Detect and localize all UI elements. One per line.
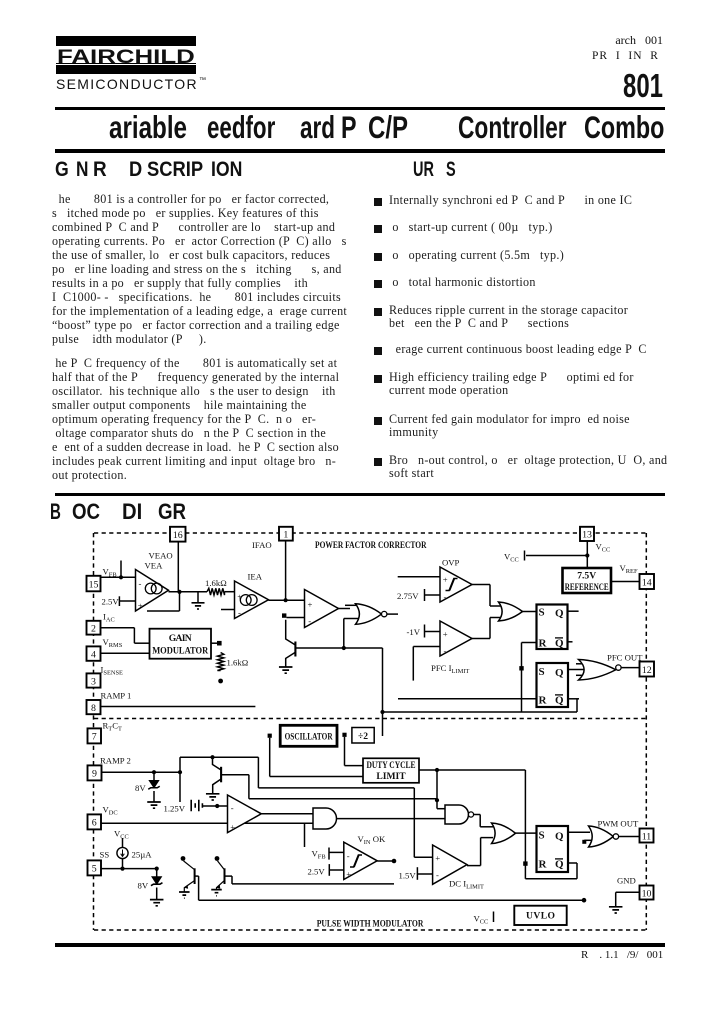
transistor Q2 (RAMP2 discharge) [213,757,221,770]
svg-text:R: R [539,638,548,650]
svg-text:16: 16 [173,530,183,541]
junction VEA output [177,590,181,594]
ground below Q1 [279,667,293,673]
svg-text:13: 13 [582,530,592,541]
wire VIN OK output [377,860,392,862]
junction VFB [119,575,123,579]
wire -1V to ILIMIT + input [425,631,441,633]
wire clock feedback line [383,711,578,713]
Fairchild logo lower bar [56,65,196,74]
wire latch1 Q out [568,610,579,612]
block DUTY CYCLE LIMIT [363,758,419,783]
wire VCC rail to ref [526,555,587,557]
wire VCC tick at UVLO [493,912,495,923]
svg-text:3: 3 [91,676,96,687]
gate NOR2 (PWM OUT driver) [589,826,614,847]
op-amp VEA (gm amplifier) [136,570,169,612]
junction battery wire [215,804,219,808]
svg-text:RAMP 2: RAMP 2 [100,756,131,766]
svg-text:POWER FACTOR CORRECTOR: POWER FACTOR CORRECTOR [315,540,427,551]
zener 8V on SS [156,869,158,877]
wire PFC comparator inverting input [287,617,305,619]
svg-text:VDC: VDC [103,805,118,817]
wire VFB to VIN OK [329,851,344,853]
wire SS from pin5 [102,868,157,870]
svg-text:7.5V: 7.5V [577,571,596,582]
pin 10 [640,886,654,900]
heading GENERAL DESCRIPTION (degraded) [55,159,69,180]
junction Q2 collector [210,755,214,759]
wire DC ILIMIT output [467,865,481,867]
wire Qbar down [576,863,578,879]
wire 2.5V to VEA + input [119,600,135,602]
comparator PWM [228,795,262,833]
svg-text:Q: Q [555,695,564,707]
terminal dot T2 collector [215,856,220,861]
revision line REV 1.1 3/9/2001 degraded [581,949,663,961]
wire 2.75V tick [424,589,426,601]
svg-text:÷2: ÷2 [358,731,368,742]
svg-text:S: S [539,666,545,678]
wire 2.5V tick VIN OK [328,864,330,876]
pin 16 [170,527,186,542]
svg-text:8V: 8V [138,881,149,891]
flip-flop latch2 (PFC output) [537,663,569,707]
svg-text:OVP: OVP [442,558,460,568]
wire VFB stub [120,561,122,578]
ground at VEA output stage [197,592,199,603]
pin 3 [87,673,101,687]
ground below T1 [179,892,190,898]
svg-text:VCC: VCC [474,914,489,926]
svg-text:15: 15 [89,579,99,590]
svg-text:GND: GND [617,876,636,886]
wire OVP + input [398,576,440,578]
svg-text:+: + [435,853,440,863]
wire latch1 R down [521,643,523,713]
wire RAMP2 vertical [179,757,181,802]
ground below T2 [211,890,222,896]
wire RAMP2 from pin9 [102,771,181,773]
svg-text:Q: Q [555,638,564,650]
wire VCC to current source [122,838,124,848]
Fairchild logo top bar [56,36,196,46]
wire PWM latch Q out [568,831,590,833]
wire IEA output to PFC comparator [269,599,305,601]
pin 14 [640,574,655,589]
wire NAND out down [479,815,481,827]
gate OR1 (PFC latch set) [499,602,523,621]
junction NAND top input [435,798,439,802]
wire latch1 R input [522,642,537,644]
wire NOR1 top input stub [345,604,358,606]
wire IAC from pin2 [101,627,135,629]
wire feedback bottom [525,878,577,880]
wire NOR2 out to pin11 [619,836,640,838]
svg-text:+: + [230,822,235,832]
pin 12 [640,662,655,677]
terminal square oscillator input [268,734,272,738]
pin 5 [88,860,102,875]
comparator PFC duty [305,590,339,628]
wire resistor to IEA [225,591,235,593]
part number 801 [623,69,663,102]
wire bus line 2 down right [413,788,415,857]
resistor 1.6k at gain modulator output [217,653,223,671]
svg-text:2: 2 [91,624,96,635]
junction IEA output [284,598,288,602]
wire OVP output down [489,585,491,607]
svg-text:8: 8 [91,703,96,714]
SVG-START [0,520,720,945]
terminal square gain modulator output [217,641,222,646]
wire NOR3 top stub [576,663,590,665]
wire OR2 top stub [480,826,493,828]
terminal square on clock feed [519,666,523,670]
wire VDC stub down [304,823,306,847]
terminal dot UVLO line [582,898,587,903]
wire into duty cycle limit upper-left [270,776,363,778]
svg-text:5: 5 [92,864,97,875]
wire VEA output wrap left [147,610,180,612]
comparator PFC ILIMIT [440,621,472,656]
PRELIMINARY with missing glyphs [592,50,659,62]
transistor Q1 (PFC ramp discharge) [286,620,295,645]
wire oscillator terminal down [269,738,271,777]
svg-text:1.25V: 1.25V [164,804,186,814]
block divide-by-2 [352,728,374,744]
svg-text:IAC: IAC [103,612,115,624]
svg-text:PWM OUT: PWM OUT [598,819,639,829]
bottom thick rule [55,943,665,947]
wire OR2 bottom stub [481,837,493,839]
wire Q2 collector line [180,756,258,758]
wire T1 base down [198,876,200,900]
wire VFB tick [328,848,330,860]
dashed border right [645,533,647,930]
wire NAND top feed line [249,798,437,800]
svg-text:-: - [444,592,447,602]
title: Variable Feedforward PFC/PWM Controller Combo (degraded) [109,112,187,144]
svg-text:OSCILLATOR: OSCILLATOR [285,732,334,743]
terminal dot T1 collector [181,856,186,861]
wire T1 base [195,875,199,877]
svg-text:VCC: VCC [504,552,519,564]
pin 9 [88,765,102,780]
svg-text:1.6kΩ: 1.6kΩ [205,578,227,588]
svg-text:DC ILIMIT: DC ILIMIT [449,879,484,891]
left column paragraph 2 [52,356,339,482]
wire OR1 bottom stub [490,617,501,619]
wire NOR3 out to pin12 [621,667,639,669]
wire IEA inverting input stub [221,609,235,611]
svg-text:-: - [238,608,241,618]
left column paragraph 1 [52,192,347,346]
comparator DC ILIMIT [433,845,467,884]
svg-text:VCC: VCC [114,829,129,841]
svg-text:IFAO: IFAO [252,540,272,550]
svg-text:7: 7 [92,732,97,743]
wire ILIMIT - input [413,646,440,648]
wire comparator out to NOR1 [339,608,351,610]
svg-text:2.5V: 2.5V [308,867,326,877]
wire into duty cycle limit [345,765,364,767]
svg-text:9: 9 [92,769,97,780]
svg-text:UVLO: UVLO [526,911,555,922]
thin rule under logo [55,107,665,110]
pin 13 [580,527,594,541]
svg-text:+: + [443,575,448,585]
pin 15 [87,576,101,592]
current source 25uA [117,847,128,858]
svg-text:Q: Q [555,667,564,679]
pin 8 [87,700,101,714]
svg-text:25µA: 25µA [132,850,153,860]
ground at GND pin [609,907,623,913]
wire OR1 out to latch1 S [523,611,537,613]
svg-text:REFERENCE: REFERENCE [565,582,609,593]
wire pin16 down to VEA output [177,542,179,593]
svg-text:-: - [139,579,142,589]
wire Q1 base line [296,647,383,649]
wire OVP output [472,584,490,586]
wire VEA output [169,591,208,593]
ground below RAMP2 zener [147,802,161,808]
svg-text:10: 10 [642,888,652,899]
wire NAND out [474,814,481,816]
wire latch2 Q to NOR3 [568,669,590,671]
block 7.5V REFERENCE [563,568,612,593]
junction SS zener [155,867,159,871]
wire NOR1 output [387,613,398,615]
ground below SS zener [150,900,164,906]
pin 11 [640,829,654,843]
terminal square PFC comparator ramp input [282,613,286,617]
svg-text:SS: SS [100,850,110,860]
svg-text:11: 11 [642,831,652,842]
wire feedback vertical [524,770,526,879]
junction VCC [585,553,589,557]
wire gain modulator output [211,642,218,644]
wire IAC into gain modulator [134,642,149,644]
wire NOR1 lower input stub [344,618,358,620]
wire OR1 top stub [490,605,501,607]
heading BLOCK DIAGRAM (degraded) [50,501,61,523]
svg-text:-: - [308,616,311,626]
wire GND down [615,892,617,906]
wire Qbar feedback down [576,699,578,712]
svg-text:S: S [539,830,545,842]
wire Q2 base down [248,775,250,799]
svg-text:GAIN: GAIN [169,633,192,644]
svg-text:IEA: IEA [248,572,263,582]
wire DC ILIMIT out up [480,838,482,866]
svg-text:VCC: VCC [596,542,611,554]
svg-text:+: + [308,600,313,610]
svg-text:VFB: VFB [312,849,326,861]
svg-text:RAMP 1: RAMP 1 [101,691,132,701]
wire 1.5V tick [416,867,418,880]
wire 2.5V tick [118,596,120,606]
svg-text:1.6kΩ: 1.6kΩ [227,658,249,668]
Semiconductor word [56,77,198,91]
gate NAND (PWM) [445,805,469,824]
thick rule above block diagram [55,493,665,497]
gate OR2 (PWM latch set) [492,823,516,844]
svg-text:VEA: VEA [145,561,164,571]
dashed border PFC section top [94,532,646,534]
svg-text:DUTY CYCLE: DUTY CYCLE [367,760,416,771]
block GAIN MODULATOR [150,629,212,659]
svg-text:S: S [539,607,545,619]
svg-text:12: 12 [642,665,652,676]
terminal square PWM latch R [523,861,527,865]
svg-text:2.75V: 2.75V [397,591,419,601]
svg-text:ISENSE: ISENSE [101,665,124,677]
pin 1 [279,527,293,541]
wire UVLO line [199,899,584,901]
svg-text:R: R [539,695,548,707]
ground below Q2 [206,794,220,800]
svg-text:LIMIT: LIMIT [376,771,406,782]
wire 2.5V to VIN OK [329,869,344,871]
gate NOR3 (PFC OUT driver) [579,660,616,681]
svg-text:6: 6 [92,818,97,829]
wire PWM latch Qbar stub [568,862,577,864]
svg-text:PFC ILIMIT: PFC ILIMIT [431,663,469,675]
pin 7 [88,728,102,743]
wire VCC tick [524,551,526,561]
wire duty line down to NAND [436,770,438,809]
wire divider terminal down [344,737,346,766]
wire AND output [337,818,446,820]
svg-text:-: - [444,646,447,656]
date line (March 2001 with missing glyphs) [562,33,663,48]
dashed border left [93,533,95,930]
Fairchild logo word [57,48,195,67]
wire ILIMIT output [472,638,490,640]
wire GND from pin10 [616,891,640,893]
battery 1.25V [191,800,202,811]
junction Q1 base line [342,646,346,650]
thick rule under title [55,149,665,153]
transistor T1 (SS discharge) [184,861,195,869]
terminal square NOR2 lower input [582,840,586,844]
wire pin13 down [586,542,588,569]
pin 2 [87,621,101,635]
wire Q2 base [222,774,249,776]
svg-text:PFC OUT: PFC OUT [607,653,643,663]
wire 1.5V to DC ILIMIT - [417,873,432,875]
wire T2 base [225,875,232,877]
wire ILIMIT output up [489,618,491,639]
wire bus line 2 down [257,757,259,788]
svg-text:+: + [443,629,448,639]
svg-text:Q: Q [555,608,564,620]
junction duty cycle output [435,768,439,772]
svg-text:+: + [138,601,143,611]
svg-text:Q: Q [555,859,564,871]
svg-text:VRMS: VRMS [103,637,123,649]
zener 8V on RAMP2 [153,772,155,780]
junction SS current source [120,867,124,871]
gate AND (PWM) [313,808,337,829]
heading FEATURES (degraded) [413,159,434,180]
comparator OVP [440,567,472,602]
wire OR2 out to latch S [516,832,537,834]
features bullets [374,198,382,206]
wire VDC line from pin6 [102,822,314,824]
junction RAMP2 vertical [178,770,182,774]
wire ref to pin14 [611,581,640,583]
dashed divider between PFC and PWM [94,718,646,720]
svg-text:VEAO: VEAO [149,551,173,561]
block OSCILLATOR [280,725,337,746]
wire NOR2 lower stub [584,839,591,841]
wire PWM comparator output [261,813,313,815]
flip-flop latch1 (PFC) [537,605,568,650]
wire 2.75V to OVP - input [425,594,441,596]
svg-text:1: 1 [283,530,288,541]
resistor 1.6k between VEA and IEA [207,588,225,595]
pin 4 [87,646,101,660]
block UVLO [514,906,566,925]
wire pin1 down to IEA output [285,541,287,601]
svg-text:VIN OK: VIN OK [358,834,386,846]
svg-text:-1V: -1V [407,627,421,637]
junction clock line [380,710,384,714]
wire RAMP1 from pin8 [101,706,256,708]
wire bus line 2 across [258,787,414,789]
terminal dot VIN OK output [392,859,397,864]
svg-text:VREF: VREF [620,563,638,575]
svg-text:RTCT: RTCT [103,721,123,733]
svg-text:1.5V: 1.5V [399,871,417,881]
wire VRMS from pin4 [101,652,150,654]
flip-flop PWM latch [537,826,569,872]
wire latch2 R line [398,698,537,700]
wire ILIMIT - input down [412,647,414,681]
wire latch1 Qbar stub [568,641,573,643]
transistor T2 (VDC clamp) [218,861,225,869]
svg-text:2.5V: 2.5V [102,597,120,607]
svg-text:4: 4 [91,649,96,660]
wire VFB to VEA inverting input [101,576,136,578]
wire latch2 Qbar stub [568,698,579,700]
op-amp IEA (gm amplifier) [235,581,269,619]
svg-text:-: - [436,870,439,880]
wire current source down [122,859,124,869]
pin 6 [88,814,102,829]
comparator VIN OK [344,842,377,879]
wire bus line 2 into DC ILIMIT [414,856,432,858]
svg-text:+: + [346,869,351,879]
dashed border bottom [94,929,646,931]
wire T2 line across [232,883,394,885]
wire NOR3 bottom stub [576,674,590,676]
svg-text:MODULATOR: MODULATOR [152,646,209,657]
wire T2 base down [231,876,233,884]
wire clock vertical [382,648,384,736]
wire NOR1 lower input down [343,619,345,649]
wire NAND top input stub [437,808,445,810]
terminal square divider input [342,733,346,737]
wire duty cycle output [419,769,525,771]
terminal dot below resistor [218,679,223,684]
svg-text:Q: Q [555,831,564,843]
wire -1V tick [424,625,426,638]
wire VEA output wrap down [179,592,181,611]
